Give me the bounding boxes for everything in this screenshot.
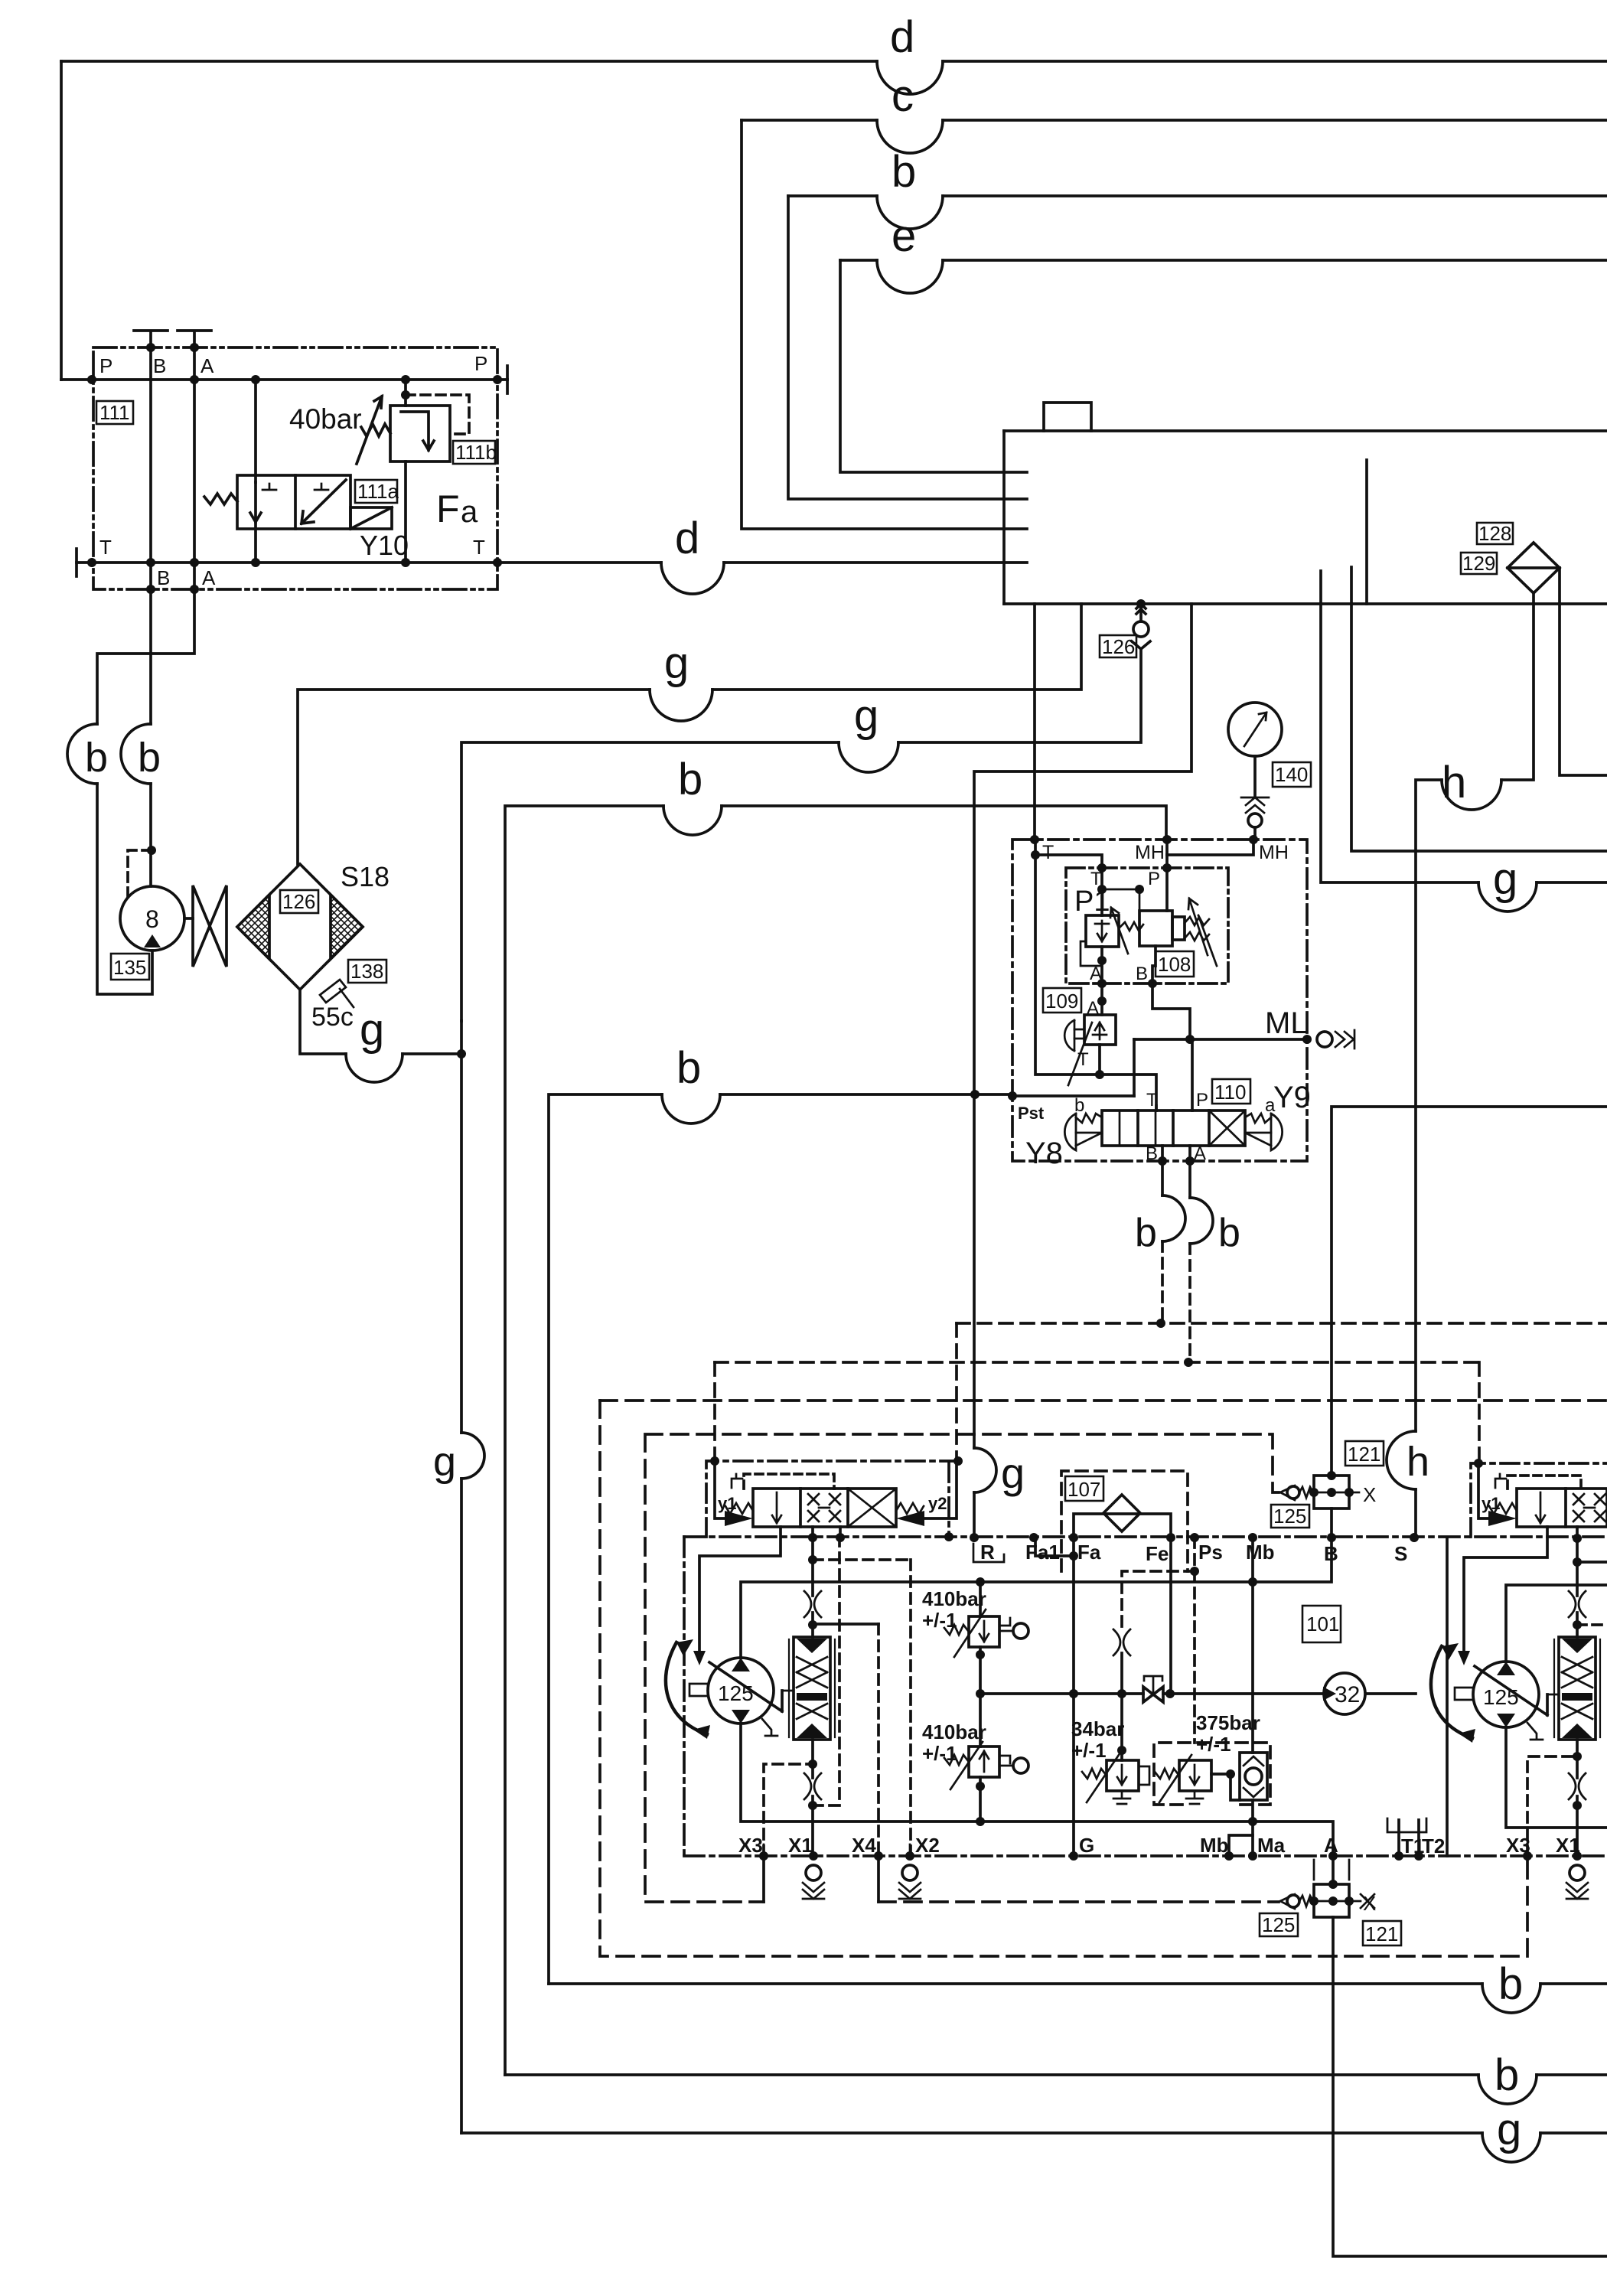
label box 111a — [355, 480, 399, 503]
node dots A B — [1097, 956, 1157, 988]
valve 110 X position — [1209, 1110, 1245, 1146]
wire right X1 rail upper with orifice — [1576, 1538, 1579, 1637]
wire right valve port stub — [1576, 1527, 1579, 1538]
check valve 126 under manifold — [1133, 621, 1149, 637]
svg-text:Mb: Mb — [1200, 1834, 1229, 1857]
svg-text:A: A — [200, 354, 214, 377]
port labels B A of 110 — [1146, 1143, 1206, 1164]
wire P1 valve out to A port — [1100, 947, 1103, 983]
label box 121 top — [1345, 1441, 1384, 1466]
port labels T MH MH on top edge — [1042, 842, 1289, 863]
wire right X1 rail lower with orifice — [1576, 1740, 1579, 1856]
orifice 34bar branch — [1113, 1629, 1130, 1655]
wire ML drop to Pst rail — [1133, 1039, 1136, 1096]
svg-text:Fe: Fe — [1146, 1542, 1169, 1565]
valve 111a plugged ports — [262, 484, 328, 490]
node b label on B drop — [138, 735, 161, 781]
wire B pilot drop with bubble b — [1161, 1161, 1164, 1195]
pump block 101 top port rail — [684, 1535, 1607, 1538]
pump right shaft tab — [1455, 1688, 1473, 1700]
svg-text:e: e — [892, 211, 916, 261]
node junction dot Pst feed — [970, 1090, 980, 1099]
node dot check 126 at manifold — [1136, 599, 1146, 608]
node dots on pressure rail — [976, 1817, 1257, 1826]
wire B port to block 121 — [1330, 1508, 1333, 1538]
node g label R drop — [1001, 1449, 1025, 1497]
label A at 109 — [1087, 998, 1099, 1019]
wire 375bar out to shuttle — [1211, 1773, 1231, 1776]
node dots top ports — [970, 1533, 1582, 1543]
svg-text:135: 135 — [113, 956, 146, 979]
svg-text:B: B — [157, 566, 170, 589]
node c label — [892, 71, 914, 121]
dashed feedback above valve — [744, 1474, 834, 1489]
port bracket R — [973, 1544, 1004, 1562]
orifice lower left pump — [804, 1773, 821, 1799]
wire A down to valve 109 — [1100, 983, 1103, 1015]
label a pilot — [1265, 1095, 1276, 1116]
svg-text:109: 109 — [1045, 990, 1078, 1013]
wire bottom b line 2 to right edge — [505, 2073, 1478, 2076]
svg-text:G: G — [1079, 1834, 1094, 1857]
manifold block top edge — [1004, 429, 1607, 432]
pilot y1 spring — [725, 1503, 753, 1514]
node b label y1430 — [676, 1043, 701, 1093]
wire b top line with connector bubble b — [788, 194, 877, 197]
svg-text:b: b — [85, 735, 108, 781]
dashed pilot line y1729 — [957, 1322, 1607, 1325]
node dots 121 bottom — [1309, 1880, 1354, 1906]
wire 108 out to B port — [1152, 946, 1156, 983]
wire 109 out to T rail — [1098, 1045, 1101, 1075]
wire pump pressure line to A port — [741, 1724, 1333, 1856]
dashed feedback right valve — [1508, 1476, 1581, 1489]
wire X4 drop below port — [877, 1856, 880, 1902]
wire X1 rail lower with orifice — [811, 1740, 814, 1856]
svg-text:y1: y1 — [718, 1494, 736, 1513]
manifold block left edge — [1002, 431, 1006, 604]
charge unit rectangle left pump — [794, 1637, 830, 1740]
svg-text:X2: X2 — [915, 1834, 940, 1857]
wire bottom g line to right edge — [461, 2131, 1482, 2135]
label box 135 — [111, 954, 149, 980]
wire Pst to valve pilot — [1012, 1094, 1134, 1097]
svg-text:111b: 111b — [455, 441, 497, 464]
svg-text:T: T — [99, 536, 112, 559]
label box 121 bottom — [1363, 1921, 1401, 1945]
wire B jog down to ML — [1152, 983, 1190, 1039]
valve block 111 border — [93, 347, 497, 589]
filter 107 diamond — [1103, 1495, 1140, 1531]
wire orifice to 34bar valve — [1120, 1653, 1123, 1760]
node dots on suction rail — [976, 1577, 1257, 1587]
svg-text:b: b — [1135, 1211, 1157, 1255]
svg-text:126: 126 — [282, 890, 315, 913]
relief valve 111b adjust arrow — [357, 396, 382, 464]
svg-text:110: 110 — [1214, 1081, 1246, 1104]
label box 108 — [1156, 951, 1194, 977]
wire Fe down to gauge line — [1169, 1538, 1172, 1694]
label box 111 — [96, 401, 133, 424]
svg-text:g: g — [1497, 2105, 1521, 2154]
svg-text:A: A — [1194, 1143, 1206, 1164]
relief valve 111b body — [390, 406, 450, 461]
manifold port stub 1 — [1319, 571, 1322, 604]
node dot 109 out — [1095, 1070, 1104, 1079]
svg-text:B: B — [1146, 1143, 1158, 1164]
svg-text:Y8: Y8 — [1025, 1137, 1063, 1170]
svg-text:P: P — [474, 352, 487, 375]
port labels T bottom — [99, 536, 485, 559]
svg-text:B: B — [153, 354, 166, 377]
port labels A B of P1 — [1090, 964, 1148, 984]
svg-text:b: b — [1495, 2050, 1519, 2100]
svg-text:111: 111 — [99, 401, 130, 424]
right pump block dash-dot border — [1471, 1463, 1607, 1537]
wire d top line with connector bubble d — [61, 60, 877, 63]
wire c drop into manifold — [742, 120, 1027, 529]
label box 126 check — [1100, 635, 1136, 658]
label ML — [1265, 1006, 1308, 1040]
node dots P1 ports — [1097, 863, 1172, 894]
label box 101 — [1302, 1606, 1341, 1642]
node dot pump pilot — [147, 846, 156, 855]
wire valve drain to swash control — [699, 1527, 781, 1651]
svg-text:y2: y2 — [928, 1494, 947, 1513]
relief valve 34bar — [1107, 1760, 1139, 1791]
wire T rail of 111 — [77, 561, 499, 564]
valve left position arrow — [772, 1492, 781, 1523]
node g label bottom — [1497, 2105, 1521, 2154]
motor bowtie symbol — [193, 885, 227, 967]
dashed pilot to pump 8 — [128, 850, 152, 897]
node dots B A edge — [1158, 1156, 1195, 1166]
port labels B A below — [157, 566, 216, 589]
wire 111a vertical P to valve to T — [254, 380, 257, 563]
label 375bar — [1196, 1711, 1260, 1756]
filter 107 loop Fa to Fe — [1074, 1514, 1171, 1538]
wire right pump suction to edge — [1506, 1585, 1607, 1662]
inner dashed frame — [645, 1434, 1279, 1902]
label P1 — [1074, 885, 1110, 918]
dashed Ps drop — [1193, 1538, 1196, 1743]
relief valve 410bar lower — [969, 1746, 999, 1777]
svg-text:b: b — [1218, 1211, 1240, 1255]
node dots valve ports — [808, 1533, 845, 1542]
svg-text:d: d — [675, 514, 699, 563]
label box 138 — [348, 960, 386, 983]
junction dots on 111 top edge — [146, 343, 199, 594]
control arrowhead onto swash — [693, 1651, 706, 1665]
wire T inner rail — [1035, 840, 1156, 1110]
svg-text:111a: 111a — [357, 480, 399, 503]
svg-text:S: S — [1394, 1542, 1407, 1565]
label box 140 — [1273, 762, 1311, 787]
test point symbol under gauge — [1241, 797, 1269, 813]
svg-text:140: 140 — [1275, 763, 1308, 786]
label Fa — [436, 488, 478, 530]
svg-text:108: 108 — [1158, 953, 1191, 976]
label X bottom — [1363, 1892, 1376, 1915]
svg-text:T: T — [1146, 1090, 1158, 1110]
valve mid position checks — [808, 1494, 840, 1521]
dashed pilot line y1780 — [715, 1361, 1479, 1364]
pump block 101 left border — [683, 1537, 686, 1856]
wire A line jog down with bubble b — [97, 589, 194, 724]
check valve 125 bottom at A port — [1280, 1894, 1295, 1909]
filter 128/129 diamond — [1508, 543, 1560, 593]
proportional valve y1 right body — [1517, 1489, 1607, 1527]
node dot Pst — [1008, 1091, 1017, 1101]
svg-text:121: 121 — [1365, 1923, 1398, 1945]
charge unit top triangle — [797, 1639, 827, 1653]
drain symbol X1 left — [806, 1865, 821, 1880]
wire g line y901 from manifold to filter S18 — [712, 604, 1081, 690]
node g label on y970 — [854, 691, 878, 741]
valve 111a right position diagonal — [302, 480, 346, 523]
thermometer probe 55c — [320, 980, 346, 1003]
wire swash link to charge unit — [782, 1690, 794, 1692]
wire Mb bottom link — [1229, 1835, 1253, 1856]
label box 129 — [1461, 552, 1497, 575]
P1 sub block border — [1066, 868, 1228, 983]
svg-text:b: b — [676, 1043, 701, 1093]
filter S18 left hatch triangle — [237, 895, 269, 959]
dashed X3 link right pump — [1527, 1756, 1577, 1856]
wire manifold stub down to pilot block T — [1033, 604, 1036, 840]
node b label bottom1 — [1498, 1959, 1523, 2009]
wire left outer drop from d line to valve 111 P rail — [60, 61, 63, 380]
filter S18 diamond — [237, 864, 363, 990]
wire manifold stub to R port via jog with bubble g — [974, 604, 1191, 1448]
node dots X1 rail — [808, 1760, 817, 1810]
node dots ML — [1185, 1035, 1312, 1044]
svg-text:c: c — [892, 71, 914, 121]
label box 125 bottom — [1260, 1913, 1298, 1936]
port Pst on pilot block — [1018, 1104, 1045, 1123]
wire P feed into P1 — [1165, 855, 1169, 911]
relief valve 410bar upper — [969, 1616, 999, 1647]
valve 110 spool lines — [1120, 1110, 1156, 1146]
orifice block 121 bottom — [1314, 1884, 1349, 1917]
dashed X4 to check valve — [878, 1900, 1279, 1903]
svg-text:121: 121 — [1348, 1443, 1380, 1466]
wire c line with connector bubble c — [742, 119, 877, 122]
svg-text:g: g — [664, 638, 689, 688]
node b label — [892, 147, 916, 197]
label X top — [1363, 1483, 1376, 1506]
label 410bar upper — [922, 1587, 986, 1632]
label box 109 — [1043, 988, 1081, 1013]
node g label filter out — [360, 1005, 384, 1055]
pump block 101 bottom port rail — [684, 1854, 1607, 1857]
label 34bar — [1071, 1717, 1124, 1762]
svg-text:P: P — [1196, 1090, 1208, 1110]
wire Fa1 jumper to Fa line — [1035, 1538, 1074, 1556]
port frame marks at A — [1314, 1860, 1349, 1880]
pump 125 text — [718, 1681, 754, 1705]
wire 410bar upper to suction rail — [979, 1582, 982, 1616]
pump 125 bottom triangle — [732, 1710, 750, 1724]
svg-text:g: g — [854, 691, 878, 741]
svg-text:125: 125 — [718, 1681, 754, 1705]
wire filter S18 bottom to g junction — [300, 990, 346, 1054]
pilot y2 triangle — [896, 1511, 924, 1526]
node b label on A drop — [85, 735, 108, 781]
wire right pump pressure to edge — [1506, 1727, 1607, 1828]
bottom port labels X3 X1 X4 X2 G Mb Ma A T1 T2 X3 X1 — [738, 1834, 1580, 1857]
pump 125 right circle — [1473, 1662, 1539, 1727]
node dots on 32 line — [1069, 1689, 1175, 1698]
node dots X1 upper branch — [808, 1620, 817, 1629]
pump 8 shaft — [184, 917, 193, 920]
wire T branch to P1 box — [1035, 855, 1102, 915]
wire b trunk from Pst line y1430 — [720, 1093, 1011, 1096]
wire Fa to G rail — [1072, 1538, 1075, 1856]
label box 111b — [453, 441, 497, 464]
node g label on trunk — [433, 1439, 456, 1485]
wire B vertical through 111 — [149, 347, 152, 589]
wire y1 pilot feed — [715, 1461, 725, 1518]
pilot dashed of 111b — [406, 395, 469, 434]
pump 8 number — [145, 905, 159, 933]
valve 109 arrow — [1068, 1022, 1092, 1085]
pilot y1 right spring — [1489, 1503, 1517, 1514]
relief valve P1 spring — [1119, 922, 1143, 931]
node b label B drop — [1135, 1211, 1157, 1255]
node dots pilot top edge — [1030, 835, 1258, 859]
charge unit cross sections — [797, 1657, 827, 1688]
valve 108 arrows — [1188, 899, 1217, 966]
wire B line down to pump 8 with bubble b — [149, 589, 152, 724]
wire g trunk vertical x603 to bottom g line with bubble g — [460, 1021, 463, 1433]
node b label A drop — [1218, 1211, 1240, 1255]
wire A port through 121 down to bottom edge — [1333, 1856, 1607, 2256]
label box 126 filter — [280, 890, 318, 913]
svg-text:T: T — [1042, 842, 1054, 863]
proportional valve 110 body — [1102, 1110, 1245, 1146]
ball valve — [1143, 1687, 1163, 1702]
wire A vertical through 111 — [193, 347, 196, 589]
pump 125 rotation arc arrow — [666, 1642, 707, 1734]
label box 125 top — [1271, 1505, 1309, 1528]
port T plug tick left — [75, 549, 78, 576]
svg-text:125: 125 — [1273, 1505, 1306, 1528]
node dots pilot line junctions — [1156, 1319, 1193, 1367]
pump 125 left circle — [708, 1658, 774, 1724]
port A plug above block — [178, 331, 211, 347]
svg-text:g: g — [1493, 854, 1517, 904]
wire tank rail right — [1446, 1538, 1449, 1856]
valve right position cross — [848, 1489, 896, 1527]
wire 32 measuring line — [980, 1692, 1416, 1695]
wire pump suction from B rail — [741, 1538, 1332, 1658]
svg-text:55c: 55c — [311, 1003, 354, 1032]
port labels T P of 110 — [1146, 1090, 1208, 1110]
wire y2 pilot feed — [924, 1461, 957, 1518]
solenoid a dome — [1271, 1114, 1283, 1150]
svg-text:375bar: 375bar — [1196, 1711, 1260, 1734]
svg-text:F: F — [436, 488, 460, 530]
manifold port stub 2 — [1350, 567, 1353, 604]
node g label on y901 — [664, 638, 689, 688]
node dot right y1 box — [1474, 1459, 1483, 1468]
svg-text:32: 32 — [1335, 1682, 1360, 1707]
pilot y1 right triangle — [1488, 1511, 1517, 1526]
svg-text:126: 126 — [1102, 635, 1135, 658]
svg-text:X: X — [1363, 1483, 1376, 1506]
drain symbol X2 — [902, 1865, 918, 1880]
svg-text:T2: T2 — [1422, 1835, 1445, 1857]
pump 8 circle — [120, 886, 184, 951]
svg-text:g: g — [433, 1439, 456, 1485]
label box 110 — [1212, 1079, 1250, 1104]
dashed Ps jog to 34bar branch — [1122, 1571, 1195, 1630]
wire from manifold stub to line y1112 — [1351, 604, 1607, 851]
node d label mid — [675, 514, 699, 563]
svg-text:a: a — [461, 495, 478, 529]
outer dashed frame top — [600, 1399, 1607, 1402]
pump 125 shaft tab — [689, 1684, 708, 1696]
valve 110 T P stubs — [1156, 1039, 1192, 1110]
svg-text:125: 125 — [1483, 1685, 1519, 1709]
manifold block bottom edge — [1004, 602, 1607, 605]
svg-text:h: h — [1442, 758, 1466, 807]
pump 125 case drain — [762, 1719, 777, 1736]
wire X1 rail upper with orifice — [811, 1538, 814, 1637]
svg-text:b: b — [892, 147, 916, 197]
dashed frame around filter 107 — [1061, 1471, 1188, 1571]
label Y9 — [1273, 1081, 1311, 1114]
pressure valve 108 body — [1139, 911, 1172, 946]
wire b drop into manifold — [788, 196, 1027, 499]
node dots bottom ports — [759, 1851, 1582, 1861]
valve 109 compensator dome — [1064, 1020, 1074, 1051]
svg-text:410bar: 410bar — [922, 1720, 986, 1743]
relief valve 111b spring — [361, 424, 390, 436]
dashed frame 375bar — [1154, 1743, 1270, 1805]
pilot valve block border — [1012, 840, 1307, 1161]
solenoid valve 111a body — [237, 475, 350, 529]
node dot 410 lower — [976, 1782, 985, 1791]
svg-text:Fa: Fa — [1077, 1541, 1101, 1564]
svg-text:+/-1: +/-1 — [922, 1609, 957, 1632]
wire filter 128 right vertex to right edge — [1560, 568, 1607, 775]
label y2 — [928, 1494, 947, 1513]
svg-text:MH: MH — [1135, 842, 1165, 863]
svg-text:ML: ML — [1265, 1006, 1308, 1040]
proportional valve y1 y2 body — [753, 1489, 896, 1527]
svg-text:MH: MH — [1259, 842, 1289, 863]
pilot y2 spring — [896, 1503, 924, 1514]
reducing valve 109 body — [1084, 1015, 1116, 1045]
solenoid Y10 — [350, 507, 392, 529]
wire P rail of 111 — [61, 378, 507, 381]
svg-text:129: 129 — [1462, 552, 1495, 575]
gauge 140 circle — [1228, 703, 1282, 756]
wire X2 branch — [813, 1558, 911, 1561]
label T at 109 — [1077, 1049, 1089, 1070]
check valve 125 top at B port — [1280, 1486, 1295, 1500]
svg-text:107: 107 — [1068, 1478, 1100, 1501]
top port labels R Fa1 Fa Fe Ps Mb B S — [980, 1541, 1407, 1565]
solenoid b dome — [1064, 1114, 1076, 1150]
wire valve port to top rail — [813, 1527, 840, 1538]
svg-text:P: P — [99, 354, 112, 377]
relief valve 375bar — [1179, 1760, 1211, 1791]
pump right swash arrow — [1475, 1666, 1547, 1715]
label Y8 — [1025, 1137, 1063, 1170]
